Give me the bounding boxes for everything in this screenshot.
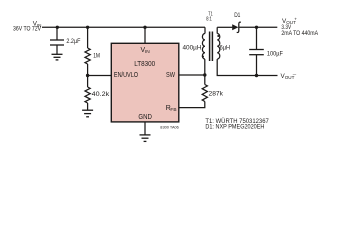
svg-text:287k: 287k (209, 90, 224, 97)
svg-text:8:1: 8:1 (206, 17, 212, 23)
svg-text:100µF: 100µF (267, 51, 283, 58)
svg-text:2.2µF: 2.2µF (66, 38, 80, 45)
svg-text:40.2k: 40.2k (92, 91, 110, 98)
svg-text:–: – (293, 72, 297, 77)
svg-text:FB: FB (170, 107, 176, 113)
svg-text:2mA TO 440mA: 2mA TO 440mA (281, 30, 318, 37)
svg-text:LT8300: LT8300 (134, 59, 155, 68)
svg-text:400µH: 400µH (183, 45, 202, 52)
svg-text:36V TO 72V: 36V TO 72V (13, 26, 42, 33)
svg-text:IN: IN (145, 49, 150, 55)
svg-text:6µH: 6µH (220, 45, 231, 52)
svg-text:EN/UVLO: EN/UVLO (114, 72, 139, 79)
svg-text:1M: 1M (93, 53, 100, 60)
svg-text:D1: NXP PMEG2020EH: D1: NXP PMEG2020EH (205, 124, 264, 131)
svg-text:GND: GND (138, 114, 152, 121)
svg-text:8300 TA06: 8300 TA06 (160, 124, 179, 129)
svg-text:SW: SW (166, 72, 175, 79)
svg-text:D1: D1 (234, 12, 241, 19)
svg-text:+: + (294, 17, 297, 22)
